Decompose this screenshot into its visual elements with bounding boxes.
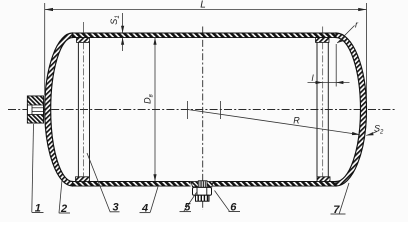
- collar: [193, 187, 212, 195]
- right head (item 7): [336, 33, 366, 186]
- dimension l: [308, 44, 350, 87]
- shell bottom wall: [73, 182, 337, 187]
- svg-text:2: 2: [60, 203, 67, 215]
- svg-text:5: 5: [184, 202, 191, 214]
- dimension R: [188, 110, 360, 136]
- left joint bottom block: [76, 177, 90, 182]
- svg-text:7: 7: [333, 204, 340, 216]
- left joint weld centerline: [83, 42, 85, 176]
- label r with leader: [337, 20, 359, 44]
- R center marks: [187, 101, 189, 119]
- right joint bottom block: [317, 177, 330, 182]
- drain boss items 5,6: [191, 181, 213, 201]
- left joint seam lines: [77, 42, 79, 176]
- drain centerline: [202, 27, 204, 211]
- svg-text:1: 1: [35, 202, 41, 214]
- right weld wedge: [207, 182, 213, 187]
- dimension L: [45, 0, 367, 102]
- left weld wedge: [191, 182, 198, 187]
- fitting boss item 1 on left head: [27, 96, 43, 123]
- svg-text:4: 4: [141, 202, 148, 214]
- left joint top block: [77, 38, 90, 43]
- callout 2: [59, 180, 70, 215]
- right joint top block: [316, 38, 330, 43]
- left head (item 2): [45, 33, 73, 186]
- axis centerline: [8, 109, 396, 111]
- dimension S1: [109, 13, 124, 51]
- callout 5: [180, 193, 197, 214]
- dimension Dv: [143, 38, 157, 182]
- svg-text:L: L: [200, 0, 206, 11]
- dimension S2: [366, 124, 384, 136]
- shell top wall: [73, 33, 337, 38]
- right joint seam lines: [316, 42, 318, 176]
- threaded neck: [198, 181, 207, 188]
- svg-text:6: 6: [230, 202, 237, 214]
- svg-text:3: 3: [112, 202, 118, 214]
- callout 4: [140, 185, 159, 214]
- right joint weld centerline: [322, 42, 324, 176]
- callout 3: [87, 153, 120, 214]
- callout 1: [32, 124, 44, 214]
- svg-text:R: R: [293, 116, 300, 126]
- plug stub: [196, 195, 210, 201]
- callout 7: [331, 183, 350, 216]
- callout 6: [215, 191, 241, 214]
